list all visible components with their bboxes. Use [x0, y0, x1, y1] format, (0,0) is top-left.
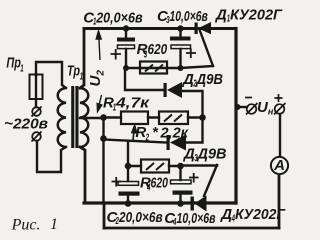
thyristor D1 [195, 22, 212, 34]
svg-text:Тр: Тр [67, 63, 80, 80]
junction output branch on right bus [235, 104, 241, 110]
wire C3 stubs [179, 29, 181, 69]
wire C1 stubs [125, 29, 127, 69]
diode D2 [164, 82, 183, 98]
svg-text:10,0×6в: 10,0×6в [170, 8, 208, 25]
junction node at R2 left [100, 114, 107, 121]
capacitor C2 plates [112, 177, 140, 196]
junction C2 bottom bus [125, 200, 132, 207]
arrow R2 wiper [132, 126, 137, 141]
wire fuse through [35, 74, 37, 107]
svg-text:20,0×6в: 20,0×6в [95, 9, 142, 26]
label D4 type [219, 206, 286, 225]
label Pr1 [6, 55, 24, 75]
junction R4 left / C2 top [125, 163, 132, 170]
wire ammeter top to plus terminal [279, 114, 281, 157]
wire bottom bus [84, 201, 236, 204]
wire top bus [84, 27, 236, 30]
wire row C1-R3-node [126, 66, 213, 68]
svg-text:Д: Д [181, 71, 194, 88]
label R2 value [135, 124, 189, 144]
terminal input bottom [32, 132, 42, 142]
wire thyristor D4 gate diagonal [204, 165, 217, 196]
label D3 type [182, 146, 227, 165]
wire node2 down to bottom bus [102, 139, 104, 204]
resistor R3 box with power slashes [140, 62, 167, 74]
wire input top: fuse to primary [36, 62, 66, 88]
svg-text:~220в: ~220в [4, 116, 48, 133]
wire R4 row segments [128, 165, 177, 167]
wire branch down to R4 row [127, 141, 129, 166]
wire outer bottom frame [104, 227, 279, 230]
svg-text:1: 1 [80, 72, 84, 83]
capacitor C3 plates [170, 37, 196, 59]
junction R4 right / C4 top [177, 163, 184, 170]
svg-text:Рис.: Рис. [11, 217, 41, 234]
wire R4 node to D4 gate corner [181, 164, 218, 166]
svg-text:Д: Д [214, 7, 227, 24]
wire node1 to node2 vertical [102, 118, 104, 139]
wire frame up to ammeter bottom [278, 174, 281, 228]
wire D2 cathode branch [125, 68, 163, 90]
junction C1 top bus [123, 25, 129, 31]
svg-text:Д9В: Д9В [196, 146, 227, 163]
transformer Tr1 core [71, 86, 74, 148]
wire node3 down to D3 row [186, 118, 203, 143]
svg-text:20,0×6в: 20,0×6в [118, 209, 162, 226]
resistor R4 box with power slashes [141, 160, 169, 173]
label D2 type [181, 71, 223, 90]
svg-text:620: 620 [148, 41, 168, 58]
svg-text:Д: Д [219, 206, 232, 223]
arrow U2 pointing up to bus [96, 31, 101, 60]
diode D3 [167, 135, 187, 151]
thyristor D4 [191, 196, 207, 212]
resistor R2 box (plain) [121, 112, 148, 125]
svg-text:КУ202Г: КУ202Г [230, 7, 283, 24]
svg-text:Пр: Пр [6, 55, 21, 72]
transformer Tr1 secondary winding [80, 88, 88, 147]
svg-text:10,0×6в: 10,0×6в [177, 210, 216, 227]
junction C4 bottom bus [177, 200, 184, 207]
label R1 value [103, 95, 151, 114]
wire left vertical from bus to secondary top [80, 29, 84, 89]
wire secondary bottom lead [80, 147, 85, 203]
capacitor C4 plates [171, 173, 199, 195]
svg-text:1: 1 [20, 64, 24, 75]
svg-text:Д: Д [182, 146, 195, 163]
svg-text:4,7к: 4,7к [115, 95, 151, 112]
wire thyristor D1 gate diagonal [200, 31, 213, 66]
junction C3 bottom node [178, 65, 184, 71]
terminal input top [32, 107, 42, 117]
svg-text:620: 620 [151, 175, 169, 192]
ammeter A [271, 157, 288, 174]
resistor R1 box with power slashes [159, 112, 188, 125]
wire output branch to minus terminal [238, 106, 247, 108]
terminal output minus [245, 98, 258, 115]
wire secondary tap to node [80, 117, 103, 119]
wire input bottom loop [37, 141, 66, 172]
svg-text:КУ202Г: КУ202Г [235, 206, 286, 223]
svg-text:2,2к: 2,2к [160, 125, 190, 142]
svg-text:А: А [273, 157, 285, 174]
svg-text:Д9В: Д9В [195, 71, 223, 88]
label C4 value [164, 210, 215, 228]
wire D2 anode to node [182, 91, 203, 114]
junction node right of R1 [199, 114, 206, 121]
junction C1 bottom node [123, 65, 129, 71]
label C3 value [157, 8, 208, 26]
fuse Pr1 [30, 75, 43, 100]
wire R2 wiper row [104, 140, 167, 143]
capacitor C1 plates [111, 38, 136, 60]
svg-text:2: 2 [145, 133, 149, 144]
terminal output plus [274, 94, 286, 115]
wire R1 row segments [104, 116, 201, 118]
junction node at wiper row [100, 135, 107, 142]
label C2 value [107, 209, 163, 227]
svg-text:1: 1 [50, 216, 58, 233]
wire jog from bottom bus down to outer frame [103, 203, 106, 228]
junction C3 top bus [177, 25, 183, 31]
transformer Tr1 primary winding [58, 88, 66, 147]
arrow for R1 label pointing down to node [97, 95, 102, 112]
wire right bus vertical [234, 29, 237, 204]
label C1 value [83, 9, 142, 27]
wire C2 stubs [127, 166, 129, 203]
label R4 value [140, 175, 168, 194]
label R3 value [137, 41, 168, 61]
wire C4 stubs [179, 166, 181, 203]
label Tr1 [67, 63, 83, 83]
label D1 type [214, 7, 283, 25]
